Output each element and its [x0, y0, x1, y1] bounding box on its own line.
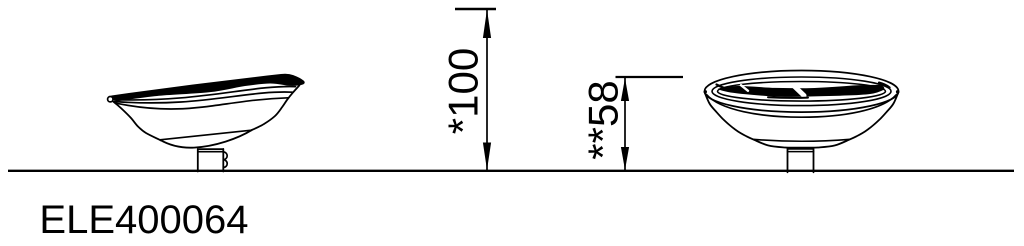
rim tip dot right	[896, 90, 899, 93]
pedestal front view	[788, 149, 814, 173]
left rim tip knob	[108, 97, 113, 102]
svg-text:*100: *100	[440, 48, 487, 134]
rim lip line C	[116, 98, 288, 109]
extension tick	[455, 8, 496, 10]
wall band arc	[707, 95, 897, 118]
bowl outer wall right	[252, 85, 300, 130]
bowl bottom lens top edge	[160, 130, 252, 140]
arrowhead up	[621, 78, 629, 101]
dimension *100	[455, 9, 496, 170]
arrowhead down	[621, 147, 629, 170]
interior lower dash	[768, 96, 808, 99]
bowl interior dark band	[719, 85, 884, 96]
middle rim ellipse	[712, 77, 891, 106]
pedestal top inner line	[788, 151, 814, 153]
bowl front view (right)	[704, 71, 900, 173]
rim hatch right	[879, 83, 890, 88]
svg-text:ELE400064: ELE400064	[39, 198, 248, 242]
interior white gap slash small	[741, 85, 748, 91]
rim hatch left	[717, 85, 725, 89]
rim tip dot left	[704, 90, 707, 93]
svg-text:**58: **58	[580, 80, 627, 159]
flat bottom line	[753, 139, 850, 141]
rim lip line B	[115, 92, 293, 103]
rim band (dark top face)	[113, 75, 304, 101]
outer rim ellipse	[705, 71, 899, 113]
bowl outer wall	[705, 92, 899, 148]
arrowhead down	[483, 143, 491, 171]
ground	[8, 170, 1014, 172]
arrowhead up	[483, 10, 491, 39]
pedestal left view	[198, 149, 224, 172]
dimension line	[624, 78, 626, 170]
extension tick	[616, 76, 684, 78]
dimension line	[486, 10, 488, 171]
inner rim ellipse	[718, 82, 886, 102]
interior white gap slash	[794, 86, 805, 96]
dimension **58	[616, 77, 684, 170]
bowl bottom lens lower curve	[160, 130, 252, 147]
bowl side view (left, tilted)	[108, 75, 304, 172]
bowl outer wall left	[114, 102, 161, 140]
pedestal fastener bumps	[223, 152, 227, 168]
pedestal top inner line	[198, 151, 224, 153]
rim lip line A	[114, 86, 296, 99]
